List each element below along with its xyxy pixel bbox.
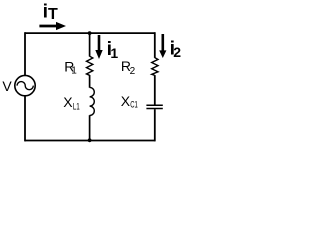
current arrow i1 (95, 35, 102, 59)
svg-text:2: 2 (130, 66, 136, 77)
AC source V (15, 75, 35, 95)
wire branch1 upper (89, 33, 91, 56)
wire branch2 lower (154, 109, 156, 141)
node dot top (88, 31, 92, 35)
wire bottom (25, 140, 155, 142)
label R1 (64, 59, 77, 77)
svg-text:T: T (48, 6, 58, 23)
label XL1 (63, 94, 80, 111)
label XC1 (121, 93, 138, 110)
svg-text:X: X (63, 94, 73, 110)
wire branch1 lower (89, 115, 91, 140)
label R2 (121, 58, 136, 77)
current arrow i2 (159, 34, 166, 58)
svg-text:L1: L1 (73, 101, 80, 111)
label iT (43, 1, 58, 24)
wire branch2 upper (154, 32, 156, 58)
svg-text:1: 1 (71, 65, 77, 76)
wire top (25, 32, 155, 34)
svg-text:V: V (2, 78, 12, 94)
label i1 (107, 38, 119, 61)
svg-text:C1: C1 (130, 100, 138, 110)
capacitor XC1 (146, 105, 162, 108)
label i2 (170, 37, 182, 60)
wire branch2 mid (154, 75, 156, 105)
node dot bottom (88, 138, 92, 142)
svg-text:1: 1 (110, 45, 118, 61)
resistor R1 (87, 56, 93, 75)
inductor XL1 (90, 87, 95, 115)
resistor R2 (152, 58, 158, 76)
wire left lower (24, 96, 26, 142)
wire left upper (24, 32, 26, 75)
wire branch1 mid (89, 75, 91, 88)
current arrow iT (39, 22, 66, 30)
svg-text:2: 2 (173, 44, 181, 60)
